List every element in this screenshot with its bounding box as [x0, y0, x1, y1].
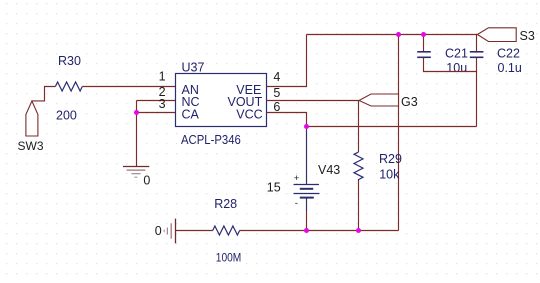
resistor R30 [55, 82, 82, 91]
svg-text:R30: R30 [58, 54, 81, 68]
wire SW3 to R30 [32, 87, 56, 101]
wire C21 bottom lead [424, 58, 477, 72]
wire ground to R28 [176, 230, 213, 232]
svg-text:U37: U37 [182, 60, 205, 74]
wire bottom rail [240, 230, 399, 232]
svg-text:SW3: SW3 [18, 139, 44, 153]
svg-text:C21: C21 [445, 47, 468, 61]
connector S3 [477, 28, 516, 42]
ground 0 (left of R28, rotated) [164, 219, 175, 244]
wire pins 2-3 to ground [136, 101, 138, 167]
svg-text:R28: R28 [214, 197, 237, 211]
junction R29 / bottom rail [356, 228, 361, 233]
svg-text:VCC: VCC [236, 107, 262, 121]
svg-text:V43: V43 [318, 163, 340, 177]
junction battery / bottom rail [304, 228, 309, 233]
wire long vertical (top rail to bottom rail) [398, 35, 400, 231]
svg-text:+: + [294, 173, 300, 184]
svg-text:15: 15 [267, 180, 281, 194]
junction top rail / C21 [421, 32, 426, 37]
resistor R29 [354, 152, 363, 181]
svg-text:0.1u: 0.1u [498, 61, 522, 75]
wire battery to bottom rail [306, 211, 308, 231]
wire U37 pin 4 to top rail [267, 35, 307, 87]
wire G3 tip to R29 [358, 101, 360, 153]
wire U37 pin 2 stub [137, 100, 176, 102]
svg-text:CA: CA [182, 107, 200, 121]
junction top rail / long vertical [396, 32, 401, 37]
capacitor C22 [470, 52, 484, 58]
svg-text:0: 0 [155, 224, 162, 238]
wire top rail [307, 34, 478, 36]
svg-text:10k: 10k [379, 167, 400, 181]
svg-text:100M: 100M [216, 251, 242, 265]
connector SW3 [26, 101, 38, 136]
wire VCC node to battery [306, 127, 308, 131]
connector G3 [359, 94, 399, 106]
svg-text:3: 3 [159, 97, 166, 111]
wire C21 top lead [423, 35, 425, 52]
resistor R28 [213, 226, 240, 235]
svg-text:5: 5 [273, 86, 280, 100]
battery V43 [294, 130, 320, 211]
junction pins 2-3 node [134, 110, 139, 115]
svg-text:-: - [295, 198, 298, 209]
svg-text:200: 200 [56, 108, 77, 122]
svg-text:C22: C22 [497, 47, 520, 61]
wire VCC horizontal rail [307, 126, 477, 128]
svg-text:ACPL-P346: ACPL-P346 [181, 133, 241, 147]
wire U37 pin 5 to G3 [267, 100, 360, 102]
wire U37 pin 3 stub [137, 112, 176, 114]
optocoupler U37 [176, 74, 267, 127]
junction VCC node [304, 124, 309, 129]
svg-text:10u: 10u [446, 61, 467, 75]
svg-text:S3: S3 [520, 29, 535, 43]
wire R29 to bottom rail [358, 181, 360, 231]
svg-text:4: 4 [273, 70, 280, 84]
svg-text:G3: G3 [401, 95, 418, 109]
svg-text:R29: R29 [379, 152, 402, 166]
ground 0 (under U37) [123, 167, 149, 178]
wire U37 pin 6 to VCC node [267, 113, 307, 127]
svg-text:1: 1 [159, 69, 166, 83]
wire R30 to U37 pin 1 [82, 86, 175, 88]
wire C22 top lead [476, 35, 478, 52]
svg-text:6: 6 [273, 100, 280, 114]
wire C22 bottom lead to VCC rail [476, 58, 478, 127]
capacitor C21 [417, 52, 431, 58]
svg-text:0: 0 [143, 173, 150, 187]
